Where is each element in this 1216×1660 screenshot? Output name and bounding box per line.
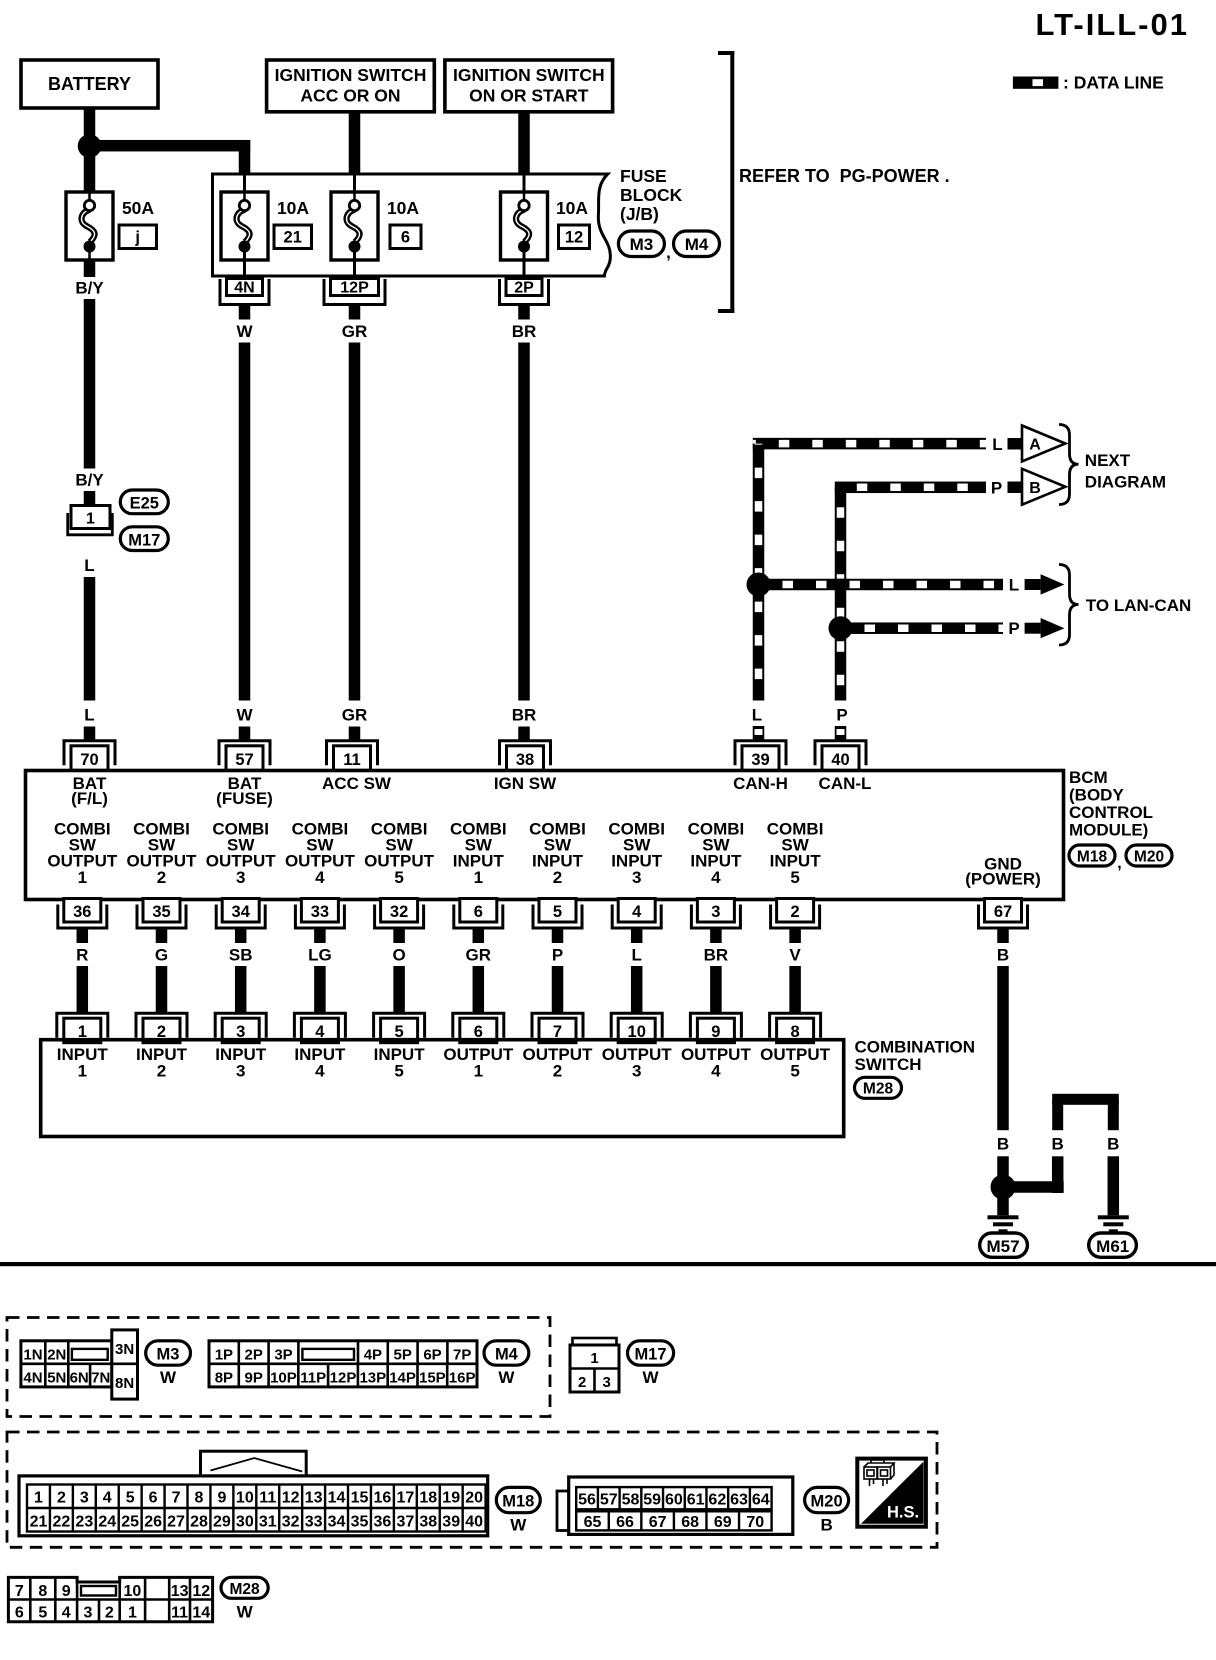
fuse 10A 6 lead [353, 174, 356, 200]
connector 4N [220, 279, 269, 305]
dashed box connector details M3 M4 M17 [7, 1318, 550, 1417]
svg-text:B: B [820, 1516, 832, 1535]
svg-text:3: 3 [84, 1604, 93, 1621]
svg-text:1: 1 [474, 868, 483, 887]
svg-text:5: 5 [790, 868, 799, 887]
svg-text:11: 11 [343, 751, 360, 769]
BCM terminal 35 [137, 899, 186, 929]
wire stub P to terminal 40 [835, 726, 847, 740]
connector id M3 oval [618, 231, 664, 257]
svg-text:: DATA LINE: : DATA LINE [1063, 73, 1164, 93]
svg-text:G: G [155, 946, 168, 965]
svg-text:65: 65 [584, 1514, 602, 1531]
data line CAN-L vertical [835, 487, 847, 700]
arrow to lan-can P [1025, 618, 1065, 638]
fuse block label [620, 166, 683, 224]
svg-text:9: 9 [62, 1583, 71, 1600]
svg-text:P: P [1008, 619, 1019, 638]
svg-text:12P: 12P [340, 280, 369, 297]
data line to lan-can P [841, 622, 1004, 634]
ground loop top bar [1052, 1094, 1119, 1130]
svg-text:B: B [1107, 1135, 1119, 1154]
svg-text:3: 3 [632, 1062, 641, 1081]
svg-text:7N: 7N [91, 1369, 110, 1386]
svg-text:,: , [1117, 855, 1121, 872]
wire W stub below 4N [239, 306, 251, 320]
svg-text:3: 3 [632, 868, 641, 887]
BCM terminal 36 [58, 899, 107, 929]
svg-text:57: 57 [235, 751, 253, 769]
svg-text:2P: 2P [245, 1346, 263, 1363]
svg-text:4: 4 [632, 903, 642, 921]
svg-text:IGN SW: IGN SW [494, 774, 557, 793]
connector id M4 oval [674, 231, 720, 257]
svg-text:7P: 7P [453, 1346, 471, 1363]
svg-text:64: 64 [752, 1491, 770, 1508]
combination switch pin label OUTPUT 1 [443, 1045, 514, 1081]
fuse 10A 6 lower lead [353, 252, 356, 279]
next diagram text [1085, 451, 1166, 492]
wire ign on to fuse block [518, 112, 530, 173]
svg-text:59: 59 [643, 1491, 661, 1508]
wire stub below terminal 2 [789, 929, 801, 944]
svg-text:14P: 14P [389, 1369, 416, 1386]
inline connector E25 M17 [68, 506, 113, 535]
data line to lan-can L [759, 579, 1004, 591]
connector id M18 oval [1069, 845, 1115, 866]
combination switch label text [855, 1038, 976, 1075]
svg-text:25: 25 [121, 1513, 139, 1530]
svg-text:26: 26 [144, 1513, 162, 1530]
svg-text:3N: 3N [115, 1341, 134, 1358]
svg-text:5N: 5N [47, 1369, 66, 1386]
BCM pin label COMBI SW INPUT 2 [529, 820, 586, 888]
svg-text:3P: 3P [274, 1346, 292, 1363]
svg-text:4: 4 [711, 868, 721, 887]
combination switch pin label OUTPUT 5 [760, 1045, 831, 1081]
BCM terminal 67 [979, 899, 1028, 929]
BCM pin label BAT (F/L) [71, 774, 108, 808]
battery B1 [21, 60, 158, 108]
BCM pin label COMBI SW INPUT 4 [688, 820, 745, 888]
connector id M28 oval bottom [221, 1577, 268, 1598]
svg-text:M57: M57 [986, 1237, 1019, 1256]
svg-text:M17: M17 [634, 1345, 666, 1363]
svg-text:R: R [76, 946, 88, 965]
svg-text:2: 2 [57, 1489, 66, 1506]
svg-text:M18: M18 [1077, 849, 1108, 866]
BCM terminal 2 [771, 899, 820, 929]
wire feed drop to fuse block [239, 140, 251, 173]
data line CAN-H horizontal to next diagram [753, 438, 986, 450]
BCM pin label COMBI SW OUTPUT 2 [127, 820, 198, 888]
svg-text:16: 16 [374, 1489, 392, 1506]
combination switch pin label OUTPUT 3 [602, 1045, 673, 1081]
svg-text:M17: M17 [128, 531, 160, 549]
node CAN-H junction [747, 573, 771, 597]
svg-text:REFER TO PG-POWER .: REFER TO PG-POWER . [739, 166, 950, 186]
svg-text:4: 4 [315, 868, 325, 887]
svg-text:4P: 4P [364, 1346, 382, 1363]
svg-text:B: B [997, 1135, 1009, 1154]
svg-text:6: 6 [149, 1489, 158, 1506]
svg-text:31: 31 [259, 1513, 277, 1530]
svg-text:12: 12 [565, 229, 583, 247]
svg-text:69: 69 [714, 1514, 732, 1531]
wire stub below terminal 6 [473, 929, 485, 944]
connector id M61 oval [1089, 1233, 1137, 1257]
svg-text:38: 38 [419, 1513, 437, 1530]
svg-text:L: L [84, 556, 94, 575]
svg-text:5: 5 [126, 1489, 135, 1506]
connector id M57 oval [980, 1233, 1028, 1257]
fuse 10A 6 [331, 192, 378, 260]
next diagram brace [1059, 425, 1079, 505]
svg-text:B: B [1052, 1135, 1064, 1154]
separator line [0, 1262, 1216, 1266]
svg-text:68: 68 [681, 1514, 699, 1531]
wire battery to junction [84, 108, 96, 146]
svg-text:COMBINATION: COMBINATION [855, 1038, 976, 1057]
svg-text:56: 56 [578, 1491, 596, 1508]
wire BR stub below 2P [518, 306, 530, 320]
data line CAN-H vertical [753, 444, 765, 701]
svg-text:P: P [836, 706, 847, 725]
wire stub B to junction [997, 1156, 1009, 1176]
svg-text:L: L [84, 706, 94, 725]
svg-text:21: 21 [30, 1513, 48, 1530]
wire R to combination switch [77, 966, 89, 1014]
svg-text:23: 23 [75, 1513, 93, 1530]
svg-text:13P: 13P [359, 1369, 386, 1386]
wire stub below terminal 36 [77, 929, 89, 944]
svg-text:W: W [236, 322, 253, 341]
svg-text:60: 60 [665, 1491, 683, 1508]
svg-text:(BODY: (BODY [1069, 786, 1124, 805]
svg-text:TO LAN-CAN: TO LAN-CAN [1086, 596, 1191, 615]
svg-text:W: W [237, 1603, 254, 1622]
svg-text:35: 35 [152, 903, 170, 921]
svg-text:27: 27 [167, 1513, 185, 1530]
wire stub below terminal 32 [393, 929, 405, 944]
svg-text:ACC OR ON: ACC OR ON [300, 86, 400, 106]
svg-text:14: 14 [328, 1489, 346, 1506]
svg-text:1N: 1N [23, 1346, 42, 1363]
svg-text:B/Y: B/Y [75, 471, 104, 490]
svg-text:66: 66 [616, 1514, 634, 1531]
svg-text:4: 4 [62, 1604, 71, 1621]
svg-text:10A: 10A [556, 198, 588, 218]
svg-text:SB: SB [229, 946, 253, 965]
BCM pin label COMBI SW OUTPUT 5 [364, 820, 435, 888]
svg-text:BATTERY: BATTERY [48, 74, 131, 94]
svg-text:BR: BR [704, 946, 729, 965]
wire GR stub below 12P [349, 306, 361, 320]
svg-text:16P: 16P [449, 1369, 476, 1386]
svg-text:SWITCH: SWITCH [855, 1055, 922, 1074]
combination switch pin label INPUT 5 [374, 1045, 426, 1081]
BCM pin label GND (POWER) [965, 855, 1041, 889]
svg-text:29: 29 [213, 1513, 231, 1530]
wire stub below terminal 33 [314, 929, 326, 944]
svg-text:5: 5 [790, 1062, 799, 1081]
svg-text:M4: M4 [685, 235, 709, 254]
combination switch terminal 2 [136, 1013, 187, 1042]
connector face M18 hood [201, 1451, 307, 1478]
svg-text:14: 14 [192, 1604, 210, 1621]
wire stub to terminal 70 [84, 727, 96, 741]
svg-text:P: P [552, 946, 563, 965]
svg-text:H.S.: H.S. [887, 1504, 919, 1522]
wire stub below terminal 4 [631, 929, 643, 944]
svg-text:12: 12 [192, 1583, 210, 1600]
svg-text:5: 5 [38, 1604, 47, 1621]
svg-text:4N: 4N [234, 280, 254, 297]
svg-text:2: 2 [578, 1374, 586, 1391]
combination switch pin label INPUT 2 [136, 1045, 188, 1081]
svg-text:M28: M28 [863, 1081, 894, 1098]
BCM pin label COMBI SW INPUT 3 [608, 820, 665, 888]
BCM terminal 33 [295, 899, 344, 929]
svg-text:12: 12 [282, 1489, 300, 1506]
svg-text:4N: 4N [23, 1369, 42, 1386]
svg-text:35: 35 [351, 1513, 369, 1530]
svg-text:57: 57 [600, 1491, 618, 1508]
wire stub below terminal 3 [710, 929, 722, 944]
node battery junction [78, 134, 102, 158]
svg-text:BLOCK: BLOCK [620, 185, 683, 205]
svg-text:M61: M61 [1096, 1237, 1129, 1256]
svg-text:L: L [992, 435, 1002, 454]
ground symbol M57 [988, 1215, 1019, 1233]
svg-text:3: 3 [236, 1062, 245, 1081]
wire B/Y long [84, 299, 96, 469]
svg-text:2: 2 [157, 1062, 166, 1081]
svg-text:30: 30 [236, 1513, 254, 1530]
svg-text:4: 4 [315, 1062, 325, 1081]
svg-text:36: 36 [73, 903, 91, 921]
connector id M20 oval bottom [805, 1487, 849, 1512]
node ground junction [991, 1175, 1016, 1200]
svg-text:11: 11 [259, 1489, 276, 1506]
combination switch terminal 6 [453, 1013, 504, 1042]
BCM terminal 57 [219, 741, 270, 771]
svg-text:2: 2 [553, 1062, 562, 1081]
svg-text:32: 32 [282, 1513, 300, 1530]
wire BR to combination switch [710, 966, 722, 1014]
svg-text:2N: 2N [47, 1346, 66, 1363]
svg-text:B/Y: B/Y [75, 279, 104, 298]
svg-text:40: 40 [465, 1513, 483, 1530]
svg-text:5: 5 [553, 903, 562, 921]
wire ign acc to fuse block [349, 112, 361, 173]
svg-text:21: 21 [284, 229, 302, 247]
wire LG to combination switch [314, 966, 326, 1014]
svg-text:L: L [632, 946, 642, 965]
svg-text:61: 61 [687, 1491, 705, 1508]
svg-text:22: 22 [52, 1513, 70, 1530]
svg-text:NEXT: NEXT [1085, 451, 1131, 470]
svg-text:M18: M18 [502, 1493, 534, 1511]
combination switch terminal 5 [374, 1013, 425, 1042]
svg-text:13: 13 [171, 1583, 189, 1600]
connector id M17 oval bottom [628, 1341, 674, 1365]
svg-text:1: 1 [474, 1062, 483, 1081]
svg-text:W: W [510, 1516, 527, 1535]
connector face M28 [8, 1577, 212, 1621]
wire V to combination switch [789, 966, 801, 1014]
wire stub L to terminal 39 [753, 726, 765, 740]
svg-text:15P: 15P [419, 1369, 446, 1386]
wire stub to terminal 57 [239, 727, 251, 741]
BCM terminal 34 [216, 899, 265, 929]
svg-text:GR: GR [342, 706, 368, 725]
svg-text:1: 1 [34, 1489, 43, 1506]
svg-text:15: 15 [351, 1489, 369, 1506]
svg-text:50A: 50A [122, 198, 154, 218]
svg-text:(J/B): (J/B) [620, 204, 659, 224]
wire fusible link to B/Y label [84, 260, 96, 277]
svg-text:2: 2 [553, 868, 562, 887]
svg-text:W: W [236, 706, 253, 725]
wire P to combination switch [552, 966, 564, 1014]
svg-text:20: 20 [465, 1489, 483, 1506]
svg-text:GR: GR [466, 946, 492, 965]
svg-text:33: 33 [305, 1513, 323, 1530]
svg-text:2: 2 [105, 1604, 114, 1621]
wire stub below terminal 5 [552, 929, 564, 944]
svg-text:11P: 11P [300, 1369, 326, 1386]
wire GR to combination switch [473, 966, 485, 1014]
svg-text:(POWER): (POWER) [965, 870, 1041, 889]
svg-text:(FUSE): (FUSE) [216, 789, 273, 808]
svg-text:70: 70 [746, 1514, 764, 1531]
svg-text:8: 8 [38, 1583, 47, 1600]
svg-text:6: 6 [15, 1604, 24, 1621]
svg-text:10A: 10A [387, 198, 419, 218]
svg-text:5: 5 [394, 868, 403, 887]
to lan-can brace [1059, 565, 1079, 646]
svg-text:5: 5 [394, 1062, 403, 1081]
next diagram triangle A [1022, 426, 1065, 462]
wire BR long [518, 343, 530, 701]
BCM terminal 4 [612, 899, 661, 929]
fuse block J/B outline [213, 174, 611, 276]
svg-text:E25: E25 [130, 495, 159, 513]
svg-text:1: 1 [590, 1350, 598, 1367]
svg-text:A: A [1029, 437, 1041, 454]
next diagram triangle B [1022, 469, 1065, 505]
BCM terminal 40 [815, 741, 866, 771]
node CAN-L junction [829, 616, 853, 640]
svg-text:GR: GR [342, 322, 368, 341]
svg-text:10: 10 [124, 1583, 142, 1600]
svg-text:4: 4 [711, 1062, 721, 1081]
svg-text:6: 6 [401, 229, 410, 247]
svg-text:M3: M3 [157, 1345, 180, 1363]
svg-text:L: L [752, 706, 762, 725]
BCM pin label COMBI SW OUTPUT 4 [285, 820, 356, 888]
svg-text:5P: 5P [394, 1346, 412, 1363]
svg-text:LT-ILL-01: LT-ILL-01 [1036, 7, 1189, 42]
BCM body control module box [26, 771, 1064, 900]
BCM terminal 11 [327, 741, 378, 771]
svg-text:24: 24 [98, 1513, 116, 1530]
wire ground branch vertical middle [1052, 1156, 1064, 1193]
svg-text:11: 11 [171, 1604, 188, 1621]
svg-text:67: 67 [994, 903, 1012, 921]
combination switch terminal 3 [215, 1013, 266, 1042]
svg-text:ACC SW: ACC SW [322, 774, 392, 793]
data line legend [1013, 73, 1164, 93]
connector face M18 [19, 1476, 488, 1536]
arrow to lan-can L [1025, 574, 1065, 594]
wire O to combination switch [393, 966, 405, 1014]
svg-text:6N: 6N [70, 1369, 89, 1386]
wire L to combination switch [631, 966, 643, 1014]
svg-text:M3: M3 [630, 235, 654, 254]
svg-text:39: 39 [751, 751, 769, 769]
connector face M17 [570, 1338, 619, 1392]
svg-text:V: V [789, 946, 801, 965]
svg-text:33: 33 [311, 903, 329, 921]
svg-text:10: 10 [236, 1489, 254, 1506]
svg-text:CAN-H: CAN-H [733, 774, 788, 793]
svg-text:1P: 1P [215, 1346, 233, 1363]
wire L long [84, 577, 96, 701]
wire junction to fusible link [84, 146, 96, 192]
BCM pin label COMBI SW INPUT 5 [767, 820, 824, 888]
svg-text:3: 3 [711, 903, 720, 921]
connector id E25 oval [120, 490, 168, 514]
wire stub below terminal 35 [156, 929, 168, 944]
connector id M4 oval bottom [484, 1341, 529, 1365]
combination switch terminal 10 [611, 1013, 662, 1042]
connector face M3 [21, 1330, 138, 1399]
svg-text:j: j [134, 229, 140, 247]
svg-text:1: 1 [86, 511, 95, 528]
data line CAN-L horizontal to next diagram [835, 482, 986, 494]
wire ground branch horizontal [1003, 1181, 1064, 1193]
connector id M17 oval [120, 527, 168, 551]
fusible link 50A j [66, 192, 113, 260]
combination switch terminal 8 [770, 1013, 821, 1042]
svg-text:36: 36 [374, 1513, 392, 1530]
combination switch pin label OUTPUT 4 [681, 1045, 752, 1081]
BCM pin label BAT (FUSE) [216, 774, 273, 808]
svg-text:P: P [991, 479, 1002, 498]
svg-text:34: 34 [232, 903, 251, 921]
svg-text:M20: M20 [1134, 849, 1164, 866]
combination switch terminal 9 [690, 1013, 741, 1042]
svg-text:37: 37 [396, 1513, 414, 1530]
svg-text:W: W [642, 1368, 659, 1387]
combination switch pin label INPUT 4 [294, 1045, 346, 1081]
svg-text:L: L [1009, 576, 1019, 595]
wire stub below terminal 34 [235, 929, 247, 944]
fuse 10A 12 lead [523, 174, 526, 200]
svg-text:B: B [997, 946, 1009, 965]
fuse 10A 21 lower lead [243, 252, 246, 279]
svg-text:BR: BR [512, 706, 537, 725]
svg-text:10P: 10P [270, 1369, 297, 1386]
connector id M18 oval bottom [496, 1487, 540, 1512]
svg-text:3: 3 [236, 868, 245, 887]
wire stub to terminal 38 [518, 727, 530, 741]
svg-text:MODULE): MODULE) [1069, 821, 1148, 840]
svg-text:10A: 10A [277, 198, 309, 218]
BCM pin label COMBI SW INPUT 1 [450, 820, 507, 888]
